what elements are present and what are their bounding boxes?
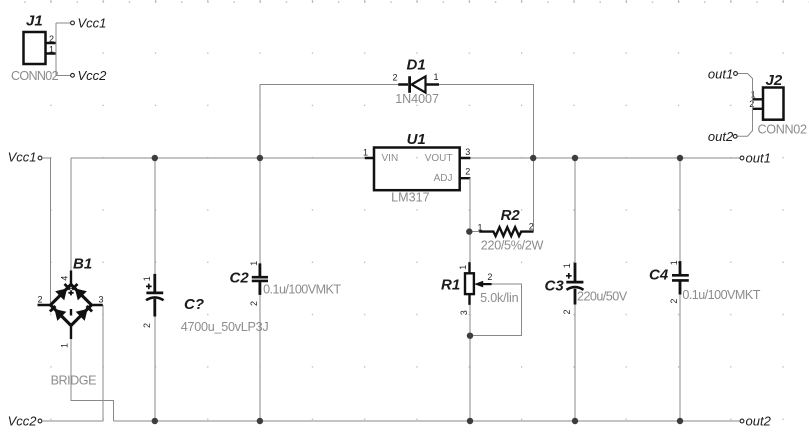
svg-text:1: 1	[562, 263, 572, 268]
svg-text:R1: R1	[441, 277, 460, 294]
potentiometer R1	[441, 262, 519, 315]
capacitor C4	[649, 260, 761, 303]
svg-text:1: 1	[60, 343, 70, 348]
wire D1 branch right	[439, 85, 534, 232]
capacitor C2	[230, 261, 342, 306]
svg-text:2: 2	[669, 299, 679, 304]
wire R1 bottom to rail	[469, 305, 471, 421]
wire bridge plus vertical	[70, 158, 72, 271]
wire top rail left segment	[71, 157, 365, 159]
svg-text:3: 3	[465, 147, 470, 157]
svg-text:BRIDGE: BRIDGE	[51, 374, 97, 388]
svg-text:ADJ: ADJ	[434, 173, 453, 184]
svg-text:Vcc2: Vcc2	[8, 413, 38, 428]
svg-text:U1: U1	[407, 131, 426, 148]
svg-text:J1: J1	[26, 13, 43, 30]
wire bottom rail	[114, 420, 741, 422]
svg-text:2: 2	[487, 272, 492, 282]
terminal out1 (rail)	[740, 151, 771, 166]
svg-text:C?: C?	[184, 296, 204, 313]
svg-text:2: 2	[562, 309, 572, 314]
terminal out2 (J2)	[708, 129, 737, 144]
svg-text:2: 2	[249, 301, 259, 306]
wire Vcc1 down to bridge pin 2	[42, 158, 50, 305]
svg-text:220u/50V: 220u/50V	[577, 290, 628, 304]
wire D1 branch left	[260, 85, 398, 159]
wire ADJ to R2 pin 1	[470, 231, 479, 233]
svg-text:Vcc1: Vcc1	[8, 150, 37, 165]
wire ADJ down	[469, 178, 471, 262]
wire top rail right segment	[470, 157, 740, 159]
svg-text:2: 2	[529, 222, 534, 232]
connector J2	[749, 72, 807, 137]
terminal Vcc2 (left rail)	[8, 413, 42, 428]
wire C? branch top	[154, 158, 156, 274]
svg-text:1: 1	[142, 276, 152, 281]
resistor R2	[478, 207, 544, 253]
svg-text:2: 2	[393, 73, 398, 83]
svg-text:LM317: LM317	[391, 190, 430, 204]
terminal out1 (J2)	[708, 66, 737, 81]
node junction dot wiper return	[467, 333, 473, 339]
svg-text:1: 1	[49, 45, 54, 55]
svg-text:5.0k/lin: 5.0k/lin	[480, 291, 518, 305]
svg-text:CONN02: CONN02	[11, 69, 59, 83]
wire C2 branch bottom	[259, 295, 261, 421]
wire C2 branch top	[259, 158, 261, 263]
svg-text:C4: C4	[649, 267, 669, 284]
capacitor C?	[142, 274, 269, 334]
svg-text:R2: R2	[501, 207, 521, 224]
node junction dots top rail	[152, 155, 684, 161]
node junction dot R2 pin1	[466, 228, 472, 234]
svg-text:VIN: VIN	[382, 153, 399, 164]
svg-text:1: 1	[249, 261, 259, 266]
svg-text:0.1u/100VMKT: 0.1u/100VMKT	[682, 288, 760, 302]
svg-text:D1: D1	[407, 57, 426, 74]
wire J1 to Vcc2 terminal	[56, 74, 70, 76]
wire R1 wiper loop	[470, 284, 522, 336]
svg-text:CONN02: CONN02	[758, 123, 808, 137]
svg-text:VOUT: VOUT	[425, 153, 453, 164]
wire bridge minus to bottom rail	[71, 339, 114, 422]
svg-text:1: 1	[478, 223, 483, 233]
wire J2 out2	[737, 99, 752, 136]
svg-text:3: 3	[459, 310, 469, 315]
regulator IC U1 (LM317)	[363, 131, 470, 204]
svg-text:B1: B1	[73, 256, 92, 273]
terminal out2 (rail)	[740, 414, 771, 429]
diode D1	[393, 57, 440, 107]
svg-text:C3: C3	[545, 278, 565, 295]
terminal Vcc1 (J1)	[71, 15, 107, 30]
node junction dots bottom rail	[152, 418, 684, 424]
connector J1	[11, 13, 59, 84]
wire C4 branch bottom	[679, 295, 681, 422]
svg-text:1: 1	[363, 148, 368, 158]
svg-text:out1: out1	[746, 151, 771, 166]
bridge B1	[38, 256, 104, 388]
svg-text:2: 2	[49, 34, 54, 44]
capacitor C3	[545, 263, 628, 315]
svg-text:1N4007: 1N4007	[395, 92, 439, 106]
svg-text:1: 1	[669, 260, 679, 265]
terminal Vcc1 (left rail)	[8, 150, 42, 165]
svg-text:J2: J2	[766, 72, 783, 89]
wire C3 branch top	[574, 158, 576, 263]
wire J1 to Vcc1 terminal	[56, 22, 70, 24]
svg-text:2: 2	[465, 167, 470, 177]
wire J2 out1	[738, 74, 753, 100]
svg-text:out1: out1	[708, 66, 733, 81]
svg-text:2: 2	[142, 323, 152, 328]
svg-text:2: 2	[38, 295, 43, 305]
svg-text:1: 1	[434, 72, 439, 82]
svg-text:out2: out2	[746, 414, 772, 429]
wire Vcc2 to bridge pin 3	[42, 305, 103, 421]
svg-text:220/5%/2W: 220/5%/2W	[481, 239, 544, 253]
wire C? branch bottom	[154, 317, 156, 422]
wire J1 vertical	[55, 23, 57, 75]
svg-text:1: 1	[458, 265, 468, 270]
svg-text:Vcc2: Vcc2	[78, 68, 108, 83]
wire C3 branch bottom	[574, 305, 576, 422]
svg-text:0.1u/100VMKT: 0.1u/100VMKT	[263, 282, 341, 296]
terminal Vcc2 (J1)	[71, 68, 108, 83]
svg-text:out2: out2	[708, 129, 734, 144]
svg-text:3: 3	[99, 295, 104, 305]
svg-text:C2: C2	[230, 270, 250, 287]
svg-text:4700u_50vLP3J: 4700u_50vLP3J	[181, 320, 269, 334]
wire C4 branch top	[679, 158, 681, 261]
svg-text:2: 2	[749, 99, 754, 109]
svg-text:4: 4	[60, 276, 70, 281]
svg-text:Vcc1: Vcc1	[78, 15, 107, 30]
